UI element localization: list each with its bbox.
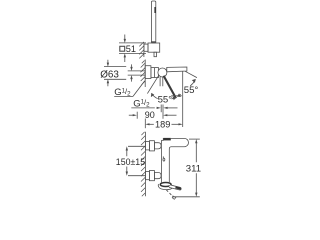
G half shower underline leader: [131, 107, 155, 109]
dimension 90 left arrow: [129, 114, 133, 116]
front wall line: [144, 132, 146, 197]
lever base dark: [166, 68, 169, 72]
shower rod: [151, 1, 155, 43]
bottom union hex: [149, 171, 154, 181]
lower 55 arc left: [152, 93, 158, 98]
G half inlet underline: [114, 95, 133, 97]
svg-text:55°: 55°: [158, 94, 173, 105]
svg-text:150±15: 150±15: [116, 157, 145, 167]
dimension 90 left tick: [136, 112, 138, 119]
lever pivot circle: [158, 68, 167, 77]
G half inlet leader: [133, 81, 145, 97]
hose dashed: [166, 190, 173, 198]
bottom union adapter: [154, 173, 161, 179]
nipple tick left: [160, 105, 162, 113]
shower outlet nipple: [160, 77, 163, 86]
bracket wall hatching: [139, 42, 144, 59]
dimension 150 bottom ext: [128, 175, 145, 177]
upper 55 arc top arrow: [190, 80, 195, 86]
lever handle horizontal: [167, 67, 187, 72]
valve body: [151, 68, 159, 78]
body column left: [160, 140, 162, 182]
bracket wall line: [143, 43, 145, 57]
spout arm: [169, 138, 188, 149]
top union hex: [149, 141, 154, 151]
inlet top line: [128, 70, 146, 72]
bracket stem: [154, 52, 157, 57]
shower handle: [169, 185, 181, 190]
nipple tick right: [162, 105, 164, 119]
dimension 150 arrows: [126, 151, 128, 172]
G half arrow left-pointing: [163, 107, 167, 109]
dimension 90 right arrow: [163, 114, 167, 116]
square symbol of 51: [120, 46, 125, 51]
dimension 189 line left: [149, 123, 154, 125]
lever rotated thin left: [147, 75, 158, 93]
dimension 189 left ext: [144, 119, 146, 129]
handle dark front: [163, 138, 171, 141]
svg-text:90: 90: [145, 110, 155, 120]
rod end line: [151, 41, 155, 43]
dimension 189 right ext: [182, 72, 184, 128]
body column right: [168, 149, 170, 182]
G half arrow right-pointing: [157, 107, 161, 109]
valve escutcheon: [145, 66, 151, 79]
holder cup: [158, 184, 173, 190]
dimension 51 extension lines: [119, 43, 146, 54]
upper 55 leader: [185, 71, 197, 77]
top union adapter: [154, 143, 161, 149]
leader shelf lower 55: [171, 95, 182, 97]
inlet arrows: [131, 64, 133, 81]
svg-text:55°: 55°: [184, 85, 199, 96]
body detail mark: [162, 156, 164, 158]
bracket wall plate: [144, 44, 148, 51]
valve wall line: [144, 60, 146, 88]
svg-text:Ø63: Ø63: [100, 70, 119, 81]
lever rotated thick: [164, 76, 176, 99]
dimension 150 top ext: [128, 145, 145, 147]
valve wall hatching: [141, 61, 146, 85]
holder rim dark: [160, 183, 171, 187]
dimension 311 line: [195, 143, 197, 193]
wall bracket block: [148, 43, 160, 52]
bottom union escutcheon: [145, 171, 149, 179]
dimension 311 bottom ext: [174, 196, 200, 198]
dia63 arrows: [107, 60, 109, 86]
top union escutcheon: [145, 142, 149, 150]
valve body inner line: [154, 68, 156, 78]
svg-text:189: 189: [155, 120, 170, 130]
dia63 top line: [104, 66, 126, 68]
hose end mark: [172, 196, 176, 199]
upper 55 arc bottom: [177, 94, 180, 96]
front wall hatching: [141, 132, 145, 196]
inlet bottom line: [128, 74, 146, 76]
dimension 311 top ext: [189, 138, 200, 140]
svg-text:51: 51: [126, 44, 136, 54]
shower handle dark tip: [176, 187, 181, 188]
dimension 51 arrows: [124, 35, 126, 63]
rod clip mark: [154, 7, 156, 13]
svg-text:311: 311: [186, 163, 201, 174]
dia63 bottom line: [104, 78, 126, 80]
dimension 189 line right: [172, 123, 179, 125]
lower 55 arc right: [171, 98, 176, 99]
handle left edge: [161, 138, 163, 140]
